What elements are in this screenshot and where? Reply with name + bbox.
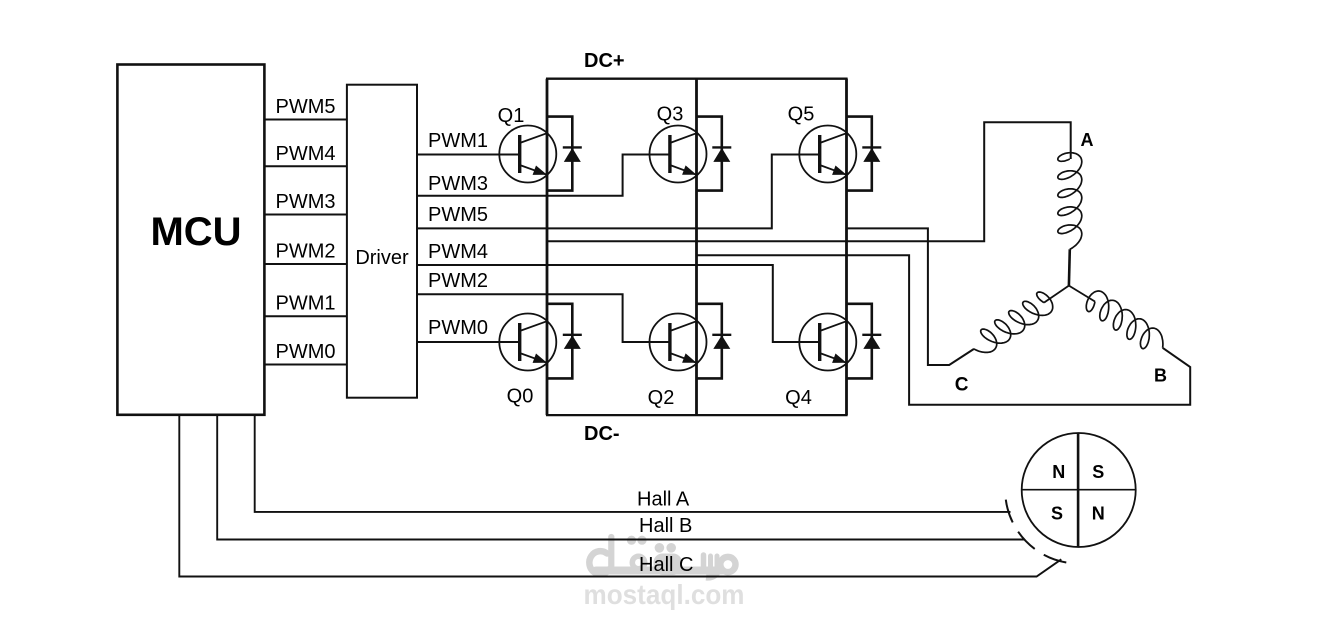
wire phase B from leg2 to winding B bbox=[697, 255, 1191, 404]
disc horizontal divider bbox=[1022, 489, 1136, 491]
net DC+ rail bbox=[546, 78, 848, 80]
diode D1 freewheel of Q1 bbox=[547, 117, 582, 191]
svg-text:A: A bbox=[1081, 130, 1094, 150]
wire PWM3 Driver-to-Q3 bbox=[417, 155, 669, 196]
wire PWM4 Driver-to-Q4 bbox=[417, 265, 818, 342]
wire star branch C bbox=[1044, 286, 1069, 303]
svg-text:N: N bbox=[1092, 504, 1105, 524]
transistor Q2 bbox=[650, 314, 707, 371]
svg-text:Hall A: Hall A bbox=[637, 489, 690, 511]
wire PWM3 MCU-to-Driver bbox=[264, 214, 347, 216]
svg-text:PWM5: PWM5 bbox=[428, 204, 488, 226]
wire Hall C MCU pin bbox=[179, 415, 1061, 577]
svg-text:Q5: Q5 bbox=[788, 104, 815, 126]
wire PWM1 MCU-to-Driver bbox=[264, 315, 347, 317]
svg-text:Hall C: Hall C bbox=[639, 554, 693, 576]
watermark mostaql logo bbox=[589, 537, 735, 578]
transistor Q5 bbox=[799, 126, 856, 183]
transistor Q3 bbox=[650, 126, 707, 183]
svg-text:S: S bbox=[1051, 504, 1063, 524]
svg-text:N: N bbox=[1052, 462, 1065, 482]
diode D5 freewheel of Q5 bbox=[847, 117, 882, 191]
svg-text:PWM0: PWM0 bbox=[276, 341, 336, 363]
wire PWM1 Driver-to-Q1 bbox=[417, 154, 520, 156]
wire PWM0 MCU-to-Driver bbox=[264, 364, 347, 366]
wire star branch B bbox=[1069, 286, 1095, 302]
svg-text:S: S bbox=[1092, 462, 1104, 482]
wire PWM4 MCU-to-Driver bbox=[264, 165, 347, 167]
wire PWM5 Driver-to-Q5 bbox=[417, 155, 818, 229]
wire PWM2 Driver-to-Q2 bbox=[417, 294, 669, 342]
hall sensor dashed arc bbox=[1006, 500, 1067, 563]
rotor magnet disc bbox=[1022, 433, 1136, 547]
svg-text:DC+: DC+ bbox=[584, 50, 625, 72]
wire half-bridge leg B vertical rail bbox=[695, 79, 698, 415]
svg-text:PWM2: PWM2 bbox=[276, 241, 336, 263]
svg-text:B: B bbox=[1154, 366, 1167, 386]
svg-text:C: C bbox=[955, 375, 969, 396]
svg-text:PWM4: PWM4 bbox=[276, 143, 336, 165]
wire phase C from leg3 to winding C bbox=[847, 228, 975, 365]
svg-text:PWM3: PWM3 bbox=[276, 191, 336, 213]
svg-text:Q3: Q3 bbox=[657, 104, 684, 126]
net DC- rail bbox=[546, 414, 848, 416]
svg-text:DC-: DC- bbox=[584, 423, 620, 445]
inductor winding C bbox=[974, 292, 1053, 352]
wire PWM5 MCU-to-Driver bbox=[264, 119, 347, 121]
svg-text:PWM1: PWM1 bbox=[428, 130, 488, 152]
wire Hall A MCU pin bbox=[255, 415, 1011, 512]
wire phase A from leg1 to winding A bbox=[547, 122, 1071, 241]
svg-text:PWM2: PWM2 bbox=[428, 270, 488, 292]
svg-text:Q0: Q0 bbox=[507, 386, 534, 408]
svg-text:PWM4: PWM4 bbox=[428, 241, 488, 263]
diode D4 freewheel of Q4 bbox=[847, 304, 882, 379]
svg-text:Driver: Driver bbox=[355, 247, 409, 269]
block MCU bbox=[117, 65, 264, 415]
wire star-point stub A bbox=[1068, 249, 1072, 285]
svg-text:PWM3: PWM3 bbox=[428, 173, 488, 195]
block Driver U-driver bbox=[347, 85, 417, 398]
svg-text:Q2: Q2 bbox=[648, 387, 675, 409]
svg-text:mostaql.com: mostaql.com bbox=[584, 579, 745, 610]
svg-text:Hall B: Hall B bbox=[639, 515, 692, 537]
svg-text:Q4: Q4 bbox=[785, 387, 812, 409]
wire PWM2 MCU-to-Driver bbox=[264, 263, 347, 265]
svg-text:Q1: Q1 bbox=[498, 105, 525, 127]
svg-text:PWM1: PWM1 bbox=[276, 293, 336, 315]
disc vertical divider bbox=[1077, 433, 1080, 547]
inductor winding B bbox=[1086, 291, 1163, 349]
wire Hall B MCU pin bbox=[217, 415, 1024, 540]
inductor winding A bbox=[1058, 153, 1082, 250]
transistor Q4 bbox=[799, 314, 856, 371]
wire PWM0 Driver-to-Q0 bbox=[417, 341, 520, 343]
transistor Q1 bbox=[499, 126, 556, 183]
svg-text:PWM5: PWM5 bbox=[276, 96, 336, 118]
diode D3 freewheel of Q3 bbox=[697, 117, 732, 191]
wire half-bridge leg A vertical rail bbox=[546, 79, 549, 415]
wire half-bridge leg C vertical rail bbox=[845, 79, 848, 415]
diode D2 freewheel of Q2 bbox=[697, 304, 732, 379]
svg-text:PWM0: PWM0 bbox=[428, 317, 488, 339]
transistor Q0 bbox=[499, 314, 556, 371]
diode D0 freewheel of Q0 bbox=[547, 304, 582, 379]
svg-text:MCU: MCU bbox=[150, 210, 241, 254]
